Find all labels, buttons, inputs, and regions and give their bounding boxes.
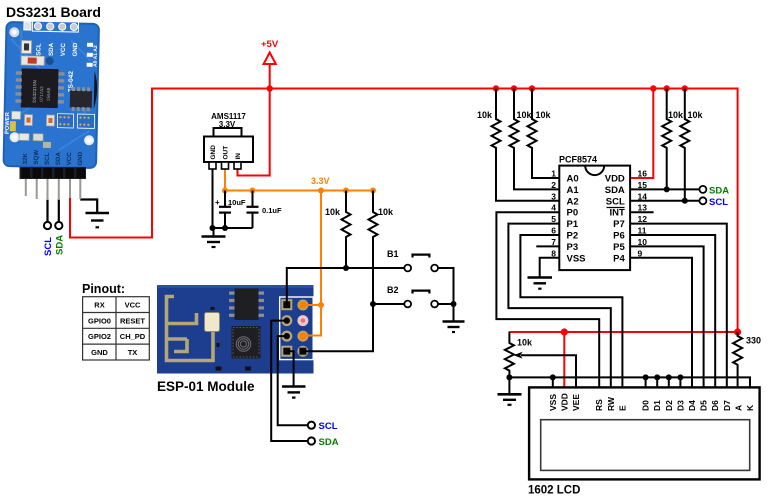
svg-text:VCC: VCC <box>60 43 67 57</box>
svg-text:SCL: SCL <box>44 152 51 165</box>
svg-text:SDA: SDA <box>319 437 339 448</box>
svg-text:GPIO2: GPIO2 <box>88 332 111 341</box>
svg-text:10k: 10k <box>668 110 684 120</box>
wire DS3231 SCL lead <box>46 199 48 222</box>
ground below potentiometer <box>498 377 522 404</box>
svg-text:RS: RS <box>594 399 604 411</box>
chip DS3231 <box>21 68 59 108</box>
board yellow LED <box>10 121 16 131</box>
svg-text:3.3V: 3.3V <box>219 120 236 129</box>
svg-text:+: + <box>215 198 220 207</box>
svg-text:A0 A1 A2: A0 A1 A2 <box>93 45 99 67</box>
svg-text:VSS: VSS <box>548 394 558 411</box>
svg-text:VCC: VCC <box>125 301 141 310</box>
svg-text:VSS: VSS <box>567 253 586 264</box>
U1 right pin numbers <box>638 169 648 259</box>
net 3.3V orange wires <box>225 169 373 336</box>
svg-text:1602 LCD: 1602 LCD <box>528 485 580 497</box>
svg-text:32K: 32K <box>22 153 29 165</box>
pushbutton B1 <box>404 255 438 272</box>
svg-text:VEE: VEE <box>571 394 581 411</box>
board red resistor <box>21 56 44 65</box>
wire B1 net <box>287 268 405 305</box>
RV1 wiper arrow to LCD VEE <box>521 355 576 387</box>
board mounting holes <box>9 27 19 37</box>
net +5V red wires <box>70 64 738 388</box>
wire U1 pin5 P1 to LCD RW <box>508 224 610 388</box>
terminal SCL left <box>44 222 51 229</box>
board traces tint <box>9 29 91 151</box>
svg-text:E: E <box>617 405 627 411</box>
node B1 junction dot <box>343 265 349 271</box>
svg-text:D0: D0 <box>641 400 651 411</box>
svg-text:D5: D5 <box>699 400 709 411</box>
ESP flash chip <box>235 289 259 321</box>
wire U1 pin10 P5 to LCD D5 <box>630 246 704 387</box>
DS3231 board module <box>2 21 100 169</box>
resistor R4 10k (A1 pull-up) <box>510 89 560 190</box>
wire AMS1117 ground rail <box>213 169 253 228</box>
svg-text:P0: P0 <box>567 208 579 219</box>
svg-text:DS3231SN: DS3231SN <box>32 80 37 103</box>
svg-text:10k: 10k <box>477 110 493 120</box>
node SCL dot <box>682 198 688 204</box>
svg-text:RX: RX <box>94 301 104 310</box>
U1 INT overline <box>607 207 625 209</box>
resistor R5 10k (A0 pull-up) <box>528 89 560 179</box>
resistor R8 330 (LCD backlight) <box>733 332 742 387</box>
svg-text:B1: B1 <box>387 249 399 259</box>
svg-text:10k: 10k <box>688 110 704 120</box>
svg-text:VCC: VCC <box>66 152 73 166</box>
svg-text:PCF8574: PCF8574 <box>559 155 597 165</box>
wire B2 net <box>303 304 404 351</box>
svg-text:P5: P5 <box>613 242 625 253</box>
terminal SDA right <box>699 186 706 193</box>
svg-text:10k: 10k <box>378 207 394 217</box>
svg-text:D7: D7 <box>722 400 732 411</box>
svg-text:330: 330 <box>746 336 761 346</box>
svg-text:GND: GND <box>91 348 108 357</box>
DS3231 header strip <box>20 167 87 179</box>
resistor R3 10k (A2 pull-up) <box>492 89 560 201</box>
svg-text:1: 1 <box>551 169 556 179</box>
svg-text:B2: B2 <box>387 285 399 295</box>
terminal SDA bottom <box>308 437 315 444</box>
ESP-01 module board <box>157 285 314 374</box>
svg-text:RW: RW <box>606 396 616 411</box>
wire DS3231 SDA lead <box>58 199 60 222</box>
ESP antenna <box>167 297 214 361</box>
svg-text:P7: P7 <box>613 219 625 230</box>
svg-text:SCL: SCL <box>319 421 338 432</box>
svg-text:D3: D3 <box>675 400 685 411</box>
svg-text:D6: D6 <box>710 400 720 411</box>
svg-text:P2: P2 <box>567 231 579 242</box>
svg-text:0717A3: 0717A3 <box>39 86 44 102</box>
wire U1 pin12 P7 to LCD D7 <box>630 224 727 388</box>
board SMD row <box>11 111 20 119</box>
svg-text:D2: D2 <box>664 400 674 411</box>
svg-text:P4: P4 <box>613 253 625 264</box>
board lower SMD caps <box>19 133 29 140</box>
svg-text:3.3V: 3.3V <box>311 176 330 186</box>
wire DS3231 GND lead <box>80 200 97 213</box>
wire U1 pin7 P3 stub <box>536 245 559 247</box>
resistor R6 10k (SDA pull-up) <box>662 89 671 190</box>
svg-text:K: K <box>745 404 755 411</box>
svg-text:SCL: SCL <box>35 43 42 56</box>
wire U1 pin13 INT stub <box>630 211 654 213</box>
svg-text:Pinout:: Pinout: <box>82 282 125 296</box>
node cap rail dots <box>210 225 229 231</box>
svg-text:10k: 10k <box>517 110 533 120</box>
wire LCD ground bus rail <box>509 377 750 387</box>
svg-text:0.1uF: 0.1uF <box>262 206 282 215</box>
svg-text:SDA: SDA <box>605 185 625 196</box>
svg-text:TX: TX <box>128 348 138 357</box>
svg-text:SDA: SDA <box>55 235 66 255</box>
1602 LCD body <box>529 387 760 479</box>
svg-text:GND: GND <box>72 42 79 56</box>
svg-text:P1: P1 <box>567 219 579 230</box>
ground DS3231 <box>86 213 110 227</box>
terminal SDA left <box>55 222 62 229</box>
U1 left pin numbers <box>551 169 556 259</box>
svg-text:D4: D4 <box>687 400 697 411</box>
U1 left pin labels <box>567 174 586 265</box>
ESP pads left column <box>281 299 292 357</box>
svg-text:3: 3 <box>551 191 556 201</box>
svg-text:2: 2 <box>551 180 556 190</box>
wire LCD pin stubs <box>553 377 681 387</box>
wire U1 pin4 P0 to LCD RS <box>496 212 599 387</box>
svg-text:16: 16 <box>638 169 648 179</box>
board DIP pad grids <box>57 114 94 129</box>
node buttons ground junction <box>451 301 457 307</box>
svg-text:10k: 10k <box>536 110 552 120</box>
svg-text:P6: P6 <box>613 231 625 242</box>
svg-text:255AB: 255AB <box>46 87 51 101</box>
wire ESP GND to ground <box>288 351 294 386</box>
wire U1 pin9 P4 to LCD D4 <box>630 258 692 388</box>
1602 LCD screen <box>541 420 750 471</box>
svg-text:CH_PD: CH_PD <box>120 332 146 341</box>
svg-text:A0: A0 <box>567 174 579 185</box>
svg-text:SDA: SDA <box>48 42 55 56</box>
wire ESP GPIO0 to SDA terminal <box>271 321 308 441</box>
svg-text:+5V: +5V <box>261 39 279 50</box>
svg-text:VDD: VDD <box>559 393 569 411</box>
svg-text:A: A <box>733 405 743 411</box>
ground U1 VSS <box>528 278 553 289</box>
1602 LCD pin labels <box>548 393 755 411</box>
ESP pads right column <box>297 300 308 357</box>
svg-text:RESET: RESET <box>120 316 145 325</box>
resistor R1 10k (B1 pull-up) <box>342 191 351 269</box>
svg-text:OUT: OUT <box>223 146 230 160</box>
svg-text:SQW: SQW <box>33 150 40 165</box>
resistor R2 10k (B2 pull-up) <box>369 191 378 305</box>
board bottom pin labels <box>22 149 84 165</box>
pushbutton B2 <box>404 291 438 308</box>
svg-text:SDA: SDA <box>55 152 62 166</box>
board PCB <box>2 21 100 169</box>
ESP8266 chip <box>232 326 261 359</box>
ESP crystal <box>205 313 220 332</box>
capacitor C2 0.1uF <box>247 207 259 213</box>
svg-text:SCL: SCL <box>43 237 54 256</box>
wire buttons to ground <box>438 268 454 321</box>
ground below buttons <box>443 322 465 333</box>
board LED component <box>21 40 31 53</box>
svg-text:IN: IN <box>235 153 242 160</box>
node +5V junction dots <box>267 85 742 335</box>
wire ESP GPIO2 to SCL terminal <box>278 336 308 425</box>
svg-text:SCL: SCL <box>606 196 625 207</box>
chip EEPROM <box>70 90 92 107</box>
svg-text:GPIO0: GPIO0 <box>88 316 111 325</box>
svg-text:A1: A1 <box>567 185 580 196</box>
node 3.3V junction dots <box>222 188 376 309</box>
svg-text:10k: 10k <box>325 207 341 217</box>
svg-text:DS3231 Board: DS3231 Board <box>6 4 101 20</box>
wire U1 pin6 P2 to LCD E <box>520 235 622 387</box>
ground below AMS1117 <box>202 228 226 247</box>
svg-text:P3: P3 <box>567 242 579 253</box>
capacitor C1 10uF <box>219 207 231 213</box>
wire U1 pin11 P6 to LCD D6 <box>630 235 715 387</box>
svg-text:SDA: SDA <box>709 185 729 196</box>
svg-text:INT: INT <box>609 208 625 219</box>
board top pin labels <box>35 41 79 56</box>
DS3231 header legs <box>26 179 81 200</box>
resistor R7 10k (SCL pull-up) <box>680 89 689 201</box>
wire U1 pin15 SDA to terminal <box>630 188 699 190</box>
regulator U2 AMS1117 <box>204 128 253 169</box>
ESP small parts <box>211 307 215 310</box>
svg-text:D1: D1 <box>652 400 662 411</box>
svg-text:ESP-01 Module: ESP-01 Module <box>157 379 255 394</box>
ground ESP <box>282 387 306 398</box>
svg-text:GND: GND <box>210 145 217 160</box>
terminal SCL bottom <box>308 422 315 429</box>
svg-text:GND: GND <box>77 151 84 165</box>
wire U1 pin8 VSS to ground <box>540 258 560 277</box>
wire U1 pin14 SCL to terminal <box>630 200 699 202</box>
svg-text:10uF: 10uF <box>228 198 246 207</box>
potentiometer RV1 10k <box>505 332 514 378</box>
svg-text:10k: 10k <box>517 338 533 348</box>
ESP pinout table <box>83 297 150 360</box>
power symbol +5V arrow <box>264 53 276 65</box>
board top pads <box>32 21 78 32</box>
svg-text:A2: A2 <box>567 196 579 207</box>
terminal SCL right <box>699 197 706 204</box>
svg-text:VDD: VDD <box>605 174 625 185</box>
ESP header pad area <box>280 297 314 360</box>
node ground bus dots <box>506 374 683 380</box>
node B2 junction dot <box>370 301 376 307</box>
U1 right pin labels <box>605 174 626 265</box>
op-amp U1 PCF8574 body <box>559 166 630 271</box>
node SDA dot <box>664 186 670 192</box>
board battery holder edge <box>94 71 98 109</box>
svg-text:SCL: SCL <box>709 197 728 208</box>
